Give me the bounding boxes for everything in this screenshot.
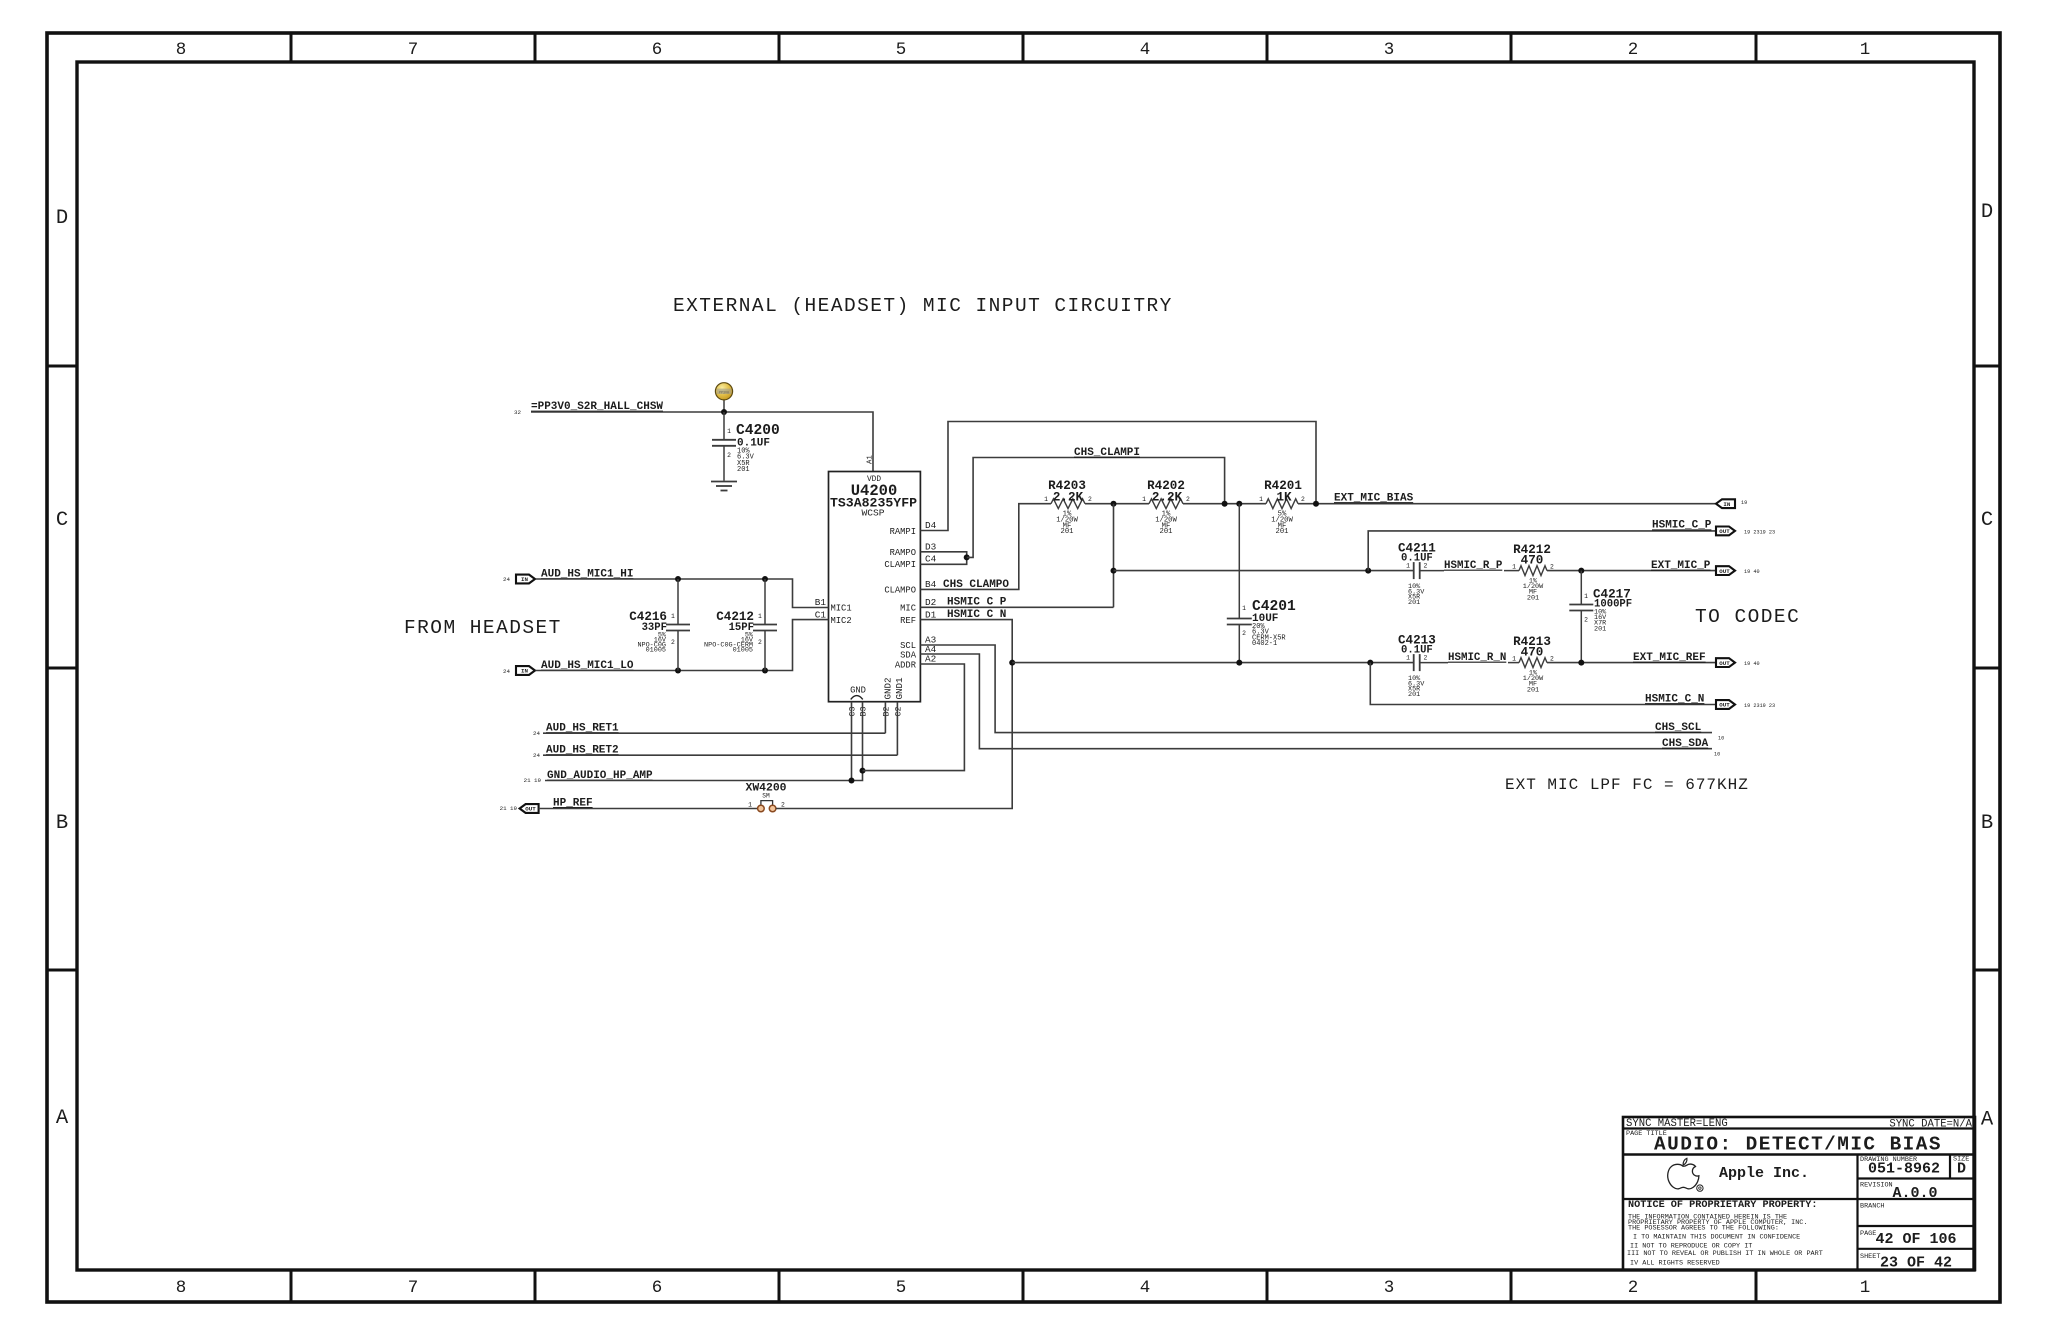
svg-text:10: 10: [1714, 751, 1720, 757]
svg-text:1: 1: [1406, 563, 1410, 570]
svg-text:2: 2: [758, 639, 762, 646]
svg-text:HSMIC C N: HSMIC C N: [947, 609, 1006, 621]
svg-text:2.2K: 2.2K: [1053, 491, 1084, 505]
net label CHS CLAMPO at pin B4: [943, 579, 1009, 591]
svg-text:1K: 1K: [1276, 491, 1292, 505]
svg-text:RAMPI: RAMPI: [890, 527, 916, 537]
zone row letters right: [1981, 201, 1994, 1132]
wire RAMPO D3: [920, 552, 966, 558]
svg-text:III NOT TO REVEAL OR PUBLISH I: III NOT TO REVEAL OR PUBLISH IT IN WHOLE…: [1627, 1250, 1823, 1258]
net label =PP3V0_S2R_HALL_CHSW: [514, 401, 663, 416]
svg-text:CLAMPI: CLAMPI: [884, 560, 916, 570]
svg-text:8: 8: [176, 1278, 187, 1298]
svg-text:201: 201: [1408, 691, 1420, 699]
zone column numbers bottom: [176, 1278, 1871, 1298]
svg-text:1: 1: [671, 613, 675, 620]
junction RAMPI riser on chain: [1313, 501, 1319, 507]
svg-text:THE POSESSOR AGREES TO THE FOL: THE POSESSOR AGREES TO THE FOLLOWING:: [1628, 1225, 1779, 1233]
wire CLAMPI C4: [920, 557, 966, 564]
Apple Inc. text: [1719, 1165, 1809, 1182]
net label AUD_HS_MIC1_LO: [541, 660, 634, 672]
svg-text:REVISION: REVISION: [1860, 1182, 1893, 1190]
junction PP3V0/C4200: [721, 409, 727, 415]
svg-text:OUT: OUT: [1719, 528, 1730, 535]
svg-text:5: 5: [896, 40, 907, 60]
resistor R4201: [1259, 479, 1305, 536]
svg-text:19 40: 19 40: [1744, 569, 1760, 575]
port OUT EXT_MIC_P: [1716, 566, 1760, 575]
svg-text:0402-1: 0402-1: [1252, 640, 1277, 648]
wire R4202 to R4201: [1183, 503, 1266, 505]
wire AUD_HS_MIC1_HI to MIC1: [536, 579, 829, 608]
svg-text:201: 201: [1160, 528, 1173, 536]
net label EXT_MIC_BIAS: [1334, 493, 1414, 505]
junction C4217 bottom: [1578, 660, 1584, 666]
svg-text:IV ALL RIGHTS RESERVED: IV ALL RIGHTS RESERVED: [1630, 1260, 1720, 1268]
wire C2 to AUD_HS_RET2: [896, 702, 898, 756]
wire R4212 to EXT_MIC_P port: [1547, 570, 1716, 572]
wire REF D1 down: [920, 620, 1012, 663]
svg-text:3: 3: [1384, 1278, 1395, 1298]
wire MIC D2 to chain node: [920, 606, 1113, 608]
svg-text:OUT: OUT: [1719, 702, 1730, 709]
svg-text:4: 4: [1140, 40, 1151, 60]
jumper XW4200: [745, 783, 786, 812]
svg-text:19: 19: [1741, 500, 1747, 506]
net label CHS_CLAMPI: [1074, 447, 1140, 459]
junction dots MIC1 net: [675, 576, 768, 582]
svg-text:5: 5: [896, 1278, 907, 1298]
sheet cell: [1860, 1253, 1952, 1272]
svg-text:FROM HEADSET: FROM HEADSET: [404, 617, 562, 639]
wire jog B3 to C3 node: [852, 771, 863, 781]
svg-text:1: 1: [1259, 496, 1263, 503]
junction dot C3/GND wire: [849, 778, 855, 784]
svg-text:B4: B4: [925, 579, 937, 590]
svg-text:BRANCH: BRANCH: [1860, 1203, 1884, 1211]
port OUT HSMIC_C_P: [1716, 527, 1775, 536]
op-amp U4200 TS3A8235YFP body: [829, 472, 921, 702]
U4200 right pin numbers: [925, 520, 937, 665]
svg-text:GND1: GND1: [894, 677, 905, 700]
svg-text:TO CODEC: TO CODEC: [1695, 606, 1800, 628]
svg-text:2: 2: [727, 452, 731, 459]
net label AUD_HS_RET2: [533, 745, 619, 760]
svg-text:D2: D2: [925, 597, 936, 608]
svg-text:OUT: OUT: [525, 806, 536, 813]
svg-text:NOTICE OF PROPRIETARY PROPERTY: NOTICE OF PROPRIETARY PROPERTY:: [1628, 1200, 1818, 1211]
junction CHS_CLAMPI on chain: [1222, 501, 1228, 507]
resistor R4202: [1142, 479, 1190, 536]
svg-text:2: 2: [1584, 617, 1588, 624]
svg-text:1: 1: [1044, 496, 1048, 503]
svg-text:B: B: [1981, 812, 1993, 835]
svg-text:2: 2: [1628, 40, 1639, 60]
ground for C4200: [711, 482, 737, 491]
svg-text:ADDR: ADDR: [895, 660, 917, 670]
svg-text:D1: D1: [925, 609, 937, 620]
pin A1 VDD: [867, 455, 875, 464]
svg-text:201: 201: [1408, 599, 1420, 607]
U4200 bottom pin numbers C3 B3 B2 C2: [849, 707, 904, 717]
svg-text:MIC: MIC: [900, 604, 916, 614]
svg-text:EXT MIC LPF FC = 677KHZ: EXT MIC LPF FC = 677KHZ: [1505, 776, 1749, 794]
U4200 left pin names MIC1 MIC2: [831, 604, 852, 626]
svg-text:201: 201: [1527, 686, 1539, 694]
svg-text:MIC1: MIC1: [831, 604, 852, 614]
svg-text:A1: A1: [867, 455, 875, 464]
svg-text:201: 201: [1061, 528, 1074, 536]
capacitor C4211: [1398, 542, 1444, 607]
capacitor C4217: [1569, 571, 1632, 663]
svg-text:1: 1: [727, 428, 731, 435]
svg-text:C: C: [1981, 509, 1993, 532]
svg-text:19 2319 23: 19 2319 23: [1744, 703, 1775, 709]
wire HP_REF right of XW4200: [776, 663, 1012, 809]
net label AUD_HS_MIC1_HI: [541, 569, 633, 581]
net label HSMIC_R_P: [1444, 560, 1503, 572]
port OUT HP_REF: [500, 804, 539, 813]
U4200 GND pin group label and arc: [850, 686, 866, 700]
net label AUD_HS_RET1: [533, 723, 619, 738]
svg-text:D: D: [1981, 201, 1993, 224]
junction C4201 on chain: [1236, 501, 1242, 507]
svg-text:IN: IN: [521, 668, 528, 675]
title block page title: [1626, 1130, 1942, 1156]
svg-text:1: 1: [1512, 656, 1516, 663]
wire SDA to CHS_SDA: [920, 654, 1712, 749]
svg-text:D3: D3: [925, 542, 937, 553]
junction dot B3/ADDR wire: [860, 768, 866, 774]
svg-text:2: 2: [671, 639, 675, 646]
svg-text:GND2: GND2: [883, 677, 894, 699]
svg-text:EXTERNAL (HEADSET) MIC INPUT C: EXTERNAL (HEADSET) MIC INPUT CIRCUITRY: [673, 295, 1173, 317]
svg-text:2: 2: [1628, 1278, 1639, 1298]
svg-text:CHS CLAMPO: CHS CLAMPO: [943, 579, 1009, 591]
junction HSMIC_C_P branch: [1365, 568, 1371, 574]
svg-text:21 19: 21 19: [500, 805, 518, 812]
junction dots MIC2 net: [675, 668, 768, 674]
resistor R4212: [1504, 543, 1554, 602]
net label EXT_MIC_P: [1651, 560, 1711, 572]
svg-text:Apple Inc.: Apple Inc.: [1719, 1165, 1809, 1182]
svg-text:01005: 01005: [646, 647, 666, 655]
svg-text:32: 32: [514, 409, 521, 416]
svg-text:19 2319 23: 19 2319 23: [1744, 530, 1775, 536]
title block frame: [1623, 1117, 1975, 1270]
svg-text:6: 6: [652, 40, 663, 60]
svg-text:201: 201: [737, 466, 750, 474]
svg-text:201: 201: [1527, 594, 1539, 602]
svg-text:RAMPO: RAMPO: [890, 548, 916, 558]
junction MIC node on chain: [1111, 501, 1117, 507]
svg-text:1: 1: [1860, 40, 1871, 60]
capacitor C4200: [712, 412, 780, 481]
svg-text:MIC2: MIC2: [831, 616, 852, 626]
svg-text:PAGE: PAGE: [1860, 1230, 1876, 1238]
svg-text:C1: C1: [815, 609, 827, 620]
svg-text:21 19: 21 19: [524, 777, 542, 784]
wire CLAMPO to resistor chain: [920, 504, 1051, 590]
svg-text:CLAMPO: CLAMPO: [884, 586, 916, 596]
svg-text:1: 1: [1860, 1278, 1871, 1298]
svg-text:19 40: 19 40: [1744, 661, 1760, 667]
wire CHS_CLAMPI: [967, 458, 1225, 558]
wire SCL to CHS_SCL: [920, 645, 1712, 733]
svg-text:201: 201: [1276, 528, 1289, 536]
svg-text:C2: C2: [895, 707, 904, 717]
wire C3 to GND_AUDIO_HP_AMP: [851, 702, 853, 781]
svg-text:SM: SM: [762, 793, 770, 800]
capacitor C4216: [629, 579, 690, 671]
port IN EXT_MIC_BIAS: [1716, 499, 1747, 508]
svg-text:10: 10: [1718, 736, 1724, 742]
junction REF node: [1009, 660, 1015, 666]
svg-text:8: 8: [176, 40, 187, 60]
svg-text:1: 1: [748, 802, 752, 809]
page cell: [1860, 1230, 1957, 1248]
wire HSMIC_R_P to C4211: [1114, 570, 1414, 572]
title block sync row: [1626, 1118, 1973, 1131]
notice of proprietary property: [1627, 1200, 1823, 1268]
svg-text:4: 4: [1140, 1278, 1151, 1298]
junction HSMIC_C_N branch: [1367, 660, 1373, 666]
svg-text:B3: B3: [860, 707, 869, 717]
wire HSMIC_C_N output: [1370, 663, 1716, 705]
net label HP_REF: [553, 797, 593, 809]
section title EXTERNAL (HEADSET) MIC INPUT CIRCUITRY: [673, 295, 1173, 317]
section label TO CODEC: [1695, 606, 1800, 628]
junction C4217 top: [1578, 568, 1584, 574]
port OUT HSMIC_C_N: [1716, 700, 1775, 709]
wire R4201 to EXT_MIC_BIAS port: [1298, 503, 1716, 505]
net label HSMIC_R_N: [1448, 652, 1506, 664]
resistor R4203: [1044, 479, 1092, 536]
svg-text:REF: REF: [900, 616, 916, 626]
svg-text:SYNC DATE=N/A: SYNC DATE=N/A: [1889, 1119, 1972, 1131]
svg-text:C: C: [56, 509, 68, 532]
branch cell: [1860, 1203, 1884, 1211]
svg-text:6: 6: [652, 1278, 663, 1298]
svg-text:1: 1: [758, 613, 762, 620]
svg-text:2: 2: [1424, 655, 1428, 662]
port OUT EXT_MIC_REF: [1716, 658, 1760, 667]
note EXT MIC LPF FC = 677KHZ: [1505, 776, 1749, 794]
svg-text:B: B: [56, 812, 68, 835]
wire chain node down through HSMIC_R_P to MIC: [1113, 504, 1115, 608]
svg-text:HSMIC C P: HSMIC C P: [947, 597, 1007, 609]
svg-text:470: 470: [1521, 646, 1544, 660]
svg-text:24: 24: [503, 576, 510, 583]
svg-text:2: 2: [1301, 496, 1305, 503]
section label FROM HEADSET: [404, 617, 562, 639]
wire AUD_HS_RET1: [543, 732, 885, 734]
svg-text:1: 1: [1512, 564, 1516, 571]
svg-text:2: 2: [1088, 496, 1092, 503]
net label HSMIC_C_N: [1645, 694, 1704, 706]
svg-text:SYNC MASTER=LENG: SYNC MASTER=LENG: [1626, 1118, 1728, 1130]
svg-text:3: 3: [1384, 40, 1395, 60]
svg-text:D: D: [1957, 1161, 1966, 1178]
svg-text:AUDIO: DETECT/MIC BIAS: AUDIO: DETECT/MIC BIAS: [1654, 1134, 1942, 1156]
junction C4201 bottom: [1236, 660, 1242, 666]
svg-text:A: A: [1981, 1109, 1994, 1132]
net label CHS_SDA: [1662, 738, 1720, 757]
svg-text:B1: B1: [815, 597, 827, 608]
svg-text:1: 1: [1406, 655, 1410, 662]
U4200 right pin names: [884, 527, 916, 671]
power ball PP3V0_S2R_HALL_CHSW: [715, 383, 732, 412]
U4200 left pin numbers B1 C1: [815, 597, 827, 620]
svg-text:2: 2: [1242, 630, 1246, 637]
Apple logo: [1668, 1158, 1703, 1191]
svg-text:24: 24: [503, 668, 510, 675]
svg-text:A: A: [56, 1107, 69, 1130]
svg-text:2: 2: [781, 802, 785, 809]
svg-text:GND: GND: [850, 686, 866, 696]
net label HSMIC_C_P: [1652, 520, 1712, 532]
svg-text:2: 2: [1424, 563, 1428, 570]
svg-text:OUT: OUT: [1719, 568, 1730, 575]
net label HSMIC C N at pin D1: [947, 609, 1006, 621]
port IN AUD_HS_MIC1_LO: [503, 666, 535, 675]
svg-text:D4: D4: [925, 520, 937, 531]
svg-text:C4: C4: [925, 553, 937, 564]
wire PP3V0 to VDD: [531, 412, 873, 472]
wire R4203 to R4202: [1085, 503, 1149, 505]
net label HSMIC C P at pin D2: [947, 597, 1007, 609]
port IN AUD_HS_MIC1_HI: [503, 575, 535, 584]
svg-text:201: 201: [1594, 625, 1606, 633]
zone row letters left: [56, 207, 69, 1130]
svg-text:1: 1: [1584, 593, 1588, 600]
capacitor C4212: [704, 579, 777, 671]
wire GND_AUDIO_HP_AMP: [545, 780, 852, 782]
svg-text:D: D: [56, 207, 68, 230]
svg-text:01005: 01005: [733, 647, 753, 655]
svg-text:1: 1: [1142, 496, 1146, 503]
wire AUD_HS_RET2: [543, 754, 897, 756]
svg-text:OUT: OUT: [1719, 660, 1730, 667]
wire RAMPI to EXT_MIC_BIAS node: [920, 422, 1316, 531]
svg-text:A2: A2: [925, 654, 936, 665]
revision cell: [1860, 1182, 1938, 1203]
net label GND_AUDIO_HP_AMP: [524, 770, 653, 784]
svg-text:SDA: SDA: [900, 650, 917, 660]
svg-text:A.0.0: A.0.0: [1892, 1185, 1937, 1202]
svg-text:7: 7: [408, 1278, 419, 1298]
svg-text:IN: IN: [521, 576, 528, 583]
wire AUD_HS_MIC1_LO to MIC2: [536, 620, 829, 671]
U4200 GND2 GND1 rotated pin names: [883, 677, 905, 700]
wire B3 down: [862, 702, 864, 771]
svg-text:PP3V0: PP3V0: [719, 392, 729, 396]
svg-text:051-8962: 051-8962: [1868, 1161, 1940, 1178]
svg-text:42 OF 106: 42 OF 106: [1875, 1231, 1956, 1248]
svg-text:23 OF 42: 23 OF 42: [1880, 1255, 1952, 1272]
wire ADDR loop: [863, 664, 965, 771]
svg-text:B2: B2: [883, 707, 892, 717]
svg-text:2.2K: 2.2K: [1152, 491, 1183, 505]
net label EXT_MIC_REF: [1633, 652, 1706, 664]
svg-text:7: 7: [408, 40, 419, 60]
net label CHS_SCL: [1655, 722, 1724, 742]
capacitor C4213: [1398, 634, 1448, 699]
wire HSMIC_C_P output: [1368, 531, 1716, 571]
svg-text:2: 2: [1550, 656, 1554, 663]
svg-text:1: 1: [1242, 605, 1246, 612]
wire HSMIC_R_N to C4213: [1012, 662, 1413, 664]
svg-text:2: 2: [1186, 496, 1190, 503]
svg-text:SHEET: SHEET: [1860, 1253, 1880, 1261]
drawing number cell: [1860, 1156, 1940, 1178]
junction HSMIC_R_P branch: [1111, 568, 1117, 574]
svg-text:I TO MAINTAIN THIS DOCUMENT IN: I TO MAINTAIN THIS DOCUMENT IN CONFIDENC…: [1633, 1234, 1800, 1242]
svg-text:470: 470: [1521, 554, 1544, 568]
resistor R4213: [1508, 635, 1554, 694]
svg-text:C3: C3: [849, 707, 858, 717]
wire B2 to AUD_HS_RET1: [884, 702, 886, 734]
wire HP_REF left of XW4200: [539, 808, 758, 810]
size cell: [1953, 1156, 1969, 1178]
wire R4213 to EXT_MIC_REF port: [1547, 662, 1716, 664]
svg-text:2: 2: [1550, 564, 1554, 571]
junction RAMPO/CLAMPI: [964, 554, 970, 560]
svg-text:WCSP: WCSP: [861, 508, 884, 519]
svg-text:IN: IN: [1723, 501, 1730, 508]
svg-text:24: 24: [533, 752, 540, 759]
zone column numbers top: [176, 40, 1871, 60]
svg-text:24: 24: [533, 730, 540, 737]
capacitor C4201: [1227, 504, 1296, 663]
